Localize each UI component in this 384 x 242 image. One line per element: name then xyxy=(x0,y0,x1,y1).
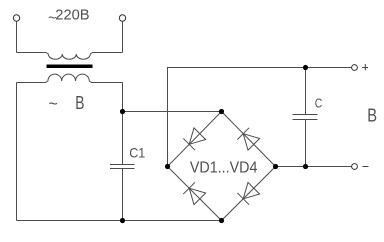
svg-text:В: В xyxy=(367,105,377,126)
svg-text:C: C xyxy=(315,97,323,111)
diode VD2 upper-right xyxy=(237,128,259,150)
node bridge left xyxy=(165,164,170,169)
transformer core xyxy=(47,65,93,69)
svg-text:~: ~ xyxy=(49,96,58,113)
node junction bottom C1 xyxy=(120,218,125,223)
svg-text:C1: C1 xyxy=(129,145,145,161)
node junction secondary/bridge xyxy=(120,109,125,114)
plus sign xyxy=(362,64,368,70)
svg-text:VD1...VD4: VD1...VD4 xyxy=(190,160,258,177)
node C bottom xyxy=(303,164,308,169)
wire primary right lead xyxy=(122,21,124,52)
wire node to bridge top xyxy=(123,111,222,113)
diode VD4 lower-right xyxy=(237,182,259,204)
transformer T1 primary winding xyxy=(17,53,123,60)
node bridge bottom xyxy=(219,218,224,223)
svg-text:В: В xyxy=(75,92,84,113)
capacitor C1 plates xyxy=(110,165,135,169)
wire C branch upper xyxy=(305,68,307,115)
terminal right primary xyxy=(119,15,125,21)
node C top xyxy=(303,65,308,70)
wire minus rail xyxy=(276,166,352,168)
svg-text:220В: 220В xyxy=(55,7,89,23)
terminal left primary xyxy=(13,15,19,21)
wire secondary left side down xyxy=(16,83,18,221)
diode VD3 lower-left xyxy=(183,182,205,204)
wire plus rail xyxy=(168,68,352,167)
bridge diamond VD1...VD4 xyxy=(168,112,276,221)
node bridge top xyxy=(219,109,224,114)
wire C branch lower xyxy=(305,120,307,167)
wire primary left lead xyxy=(16,21,18,52)
capacitor C plates xyxy=(293,115,318,120)
wire C1 branch upper xyxy=(122,83,124,165)
node bridge right xyxy=(273,164,278,169)
transformer T1 secondary winding xyxy=(17,74,123,82)
terminal plus output xyxy=(352,65,358,71)
wire bottom rail xyxy=(17,220,222,222)
terminal minus output xyxy=(352,164,358,170)
minus sign xyxy=(363,166,369,168)
wire C1 branch lower xyxy=(122,169,124,221)
diode VD1 upper-left xyxy=(183,128,205,150)
